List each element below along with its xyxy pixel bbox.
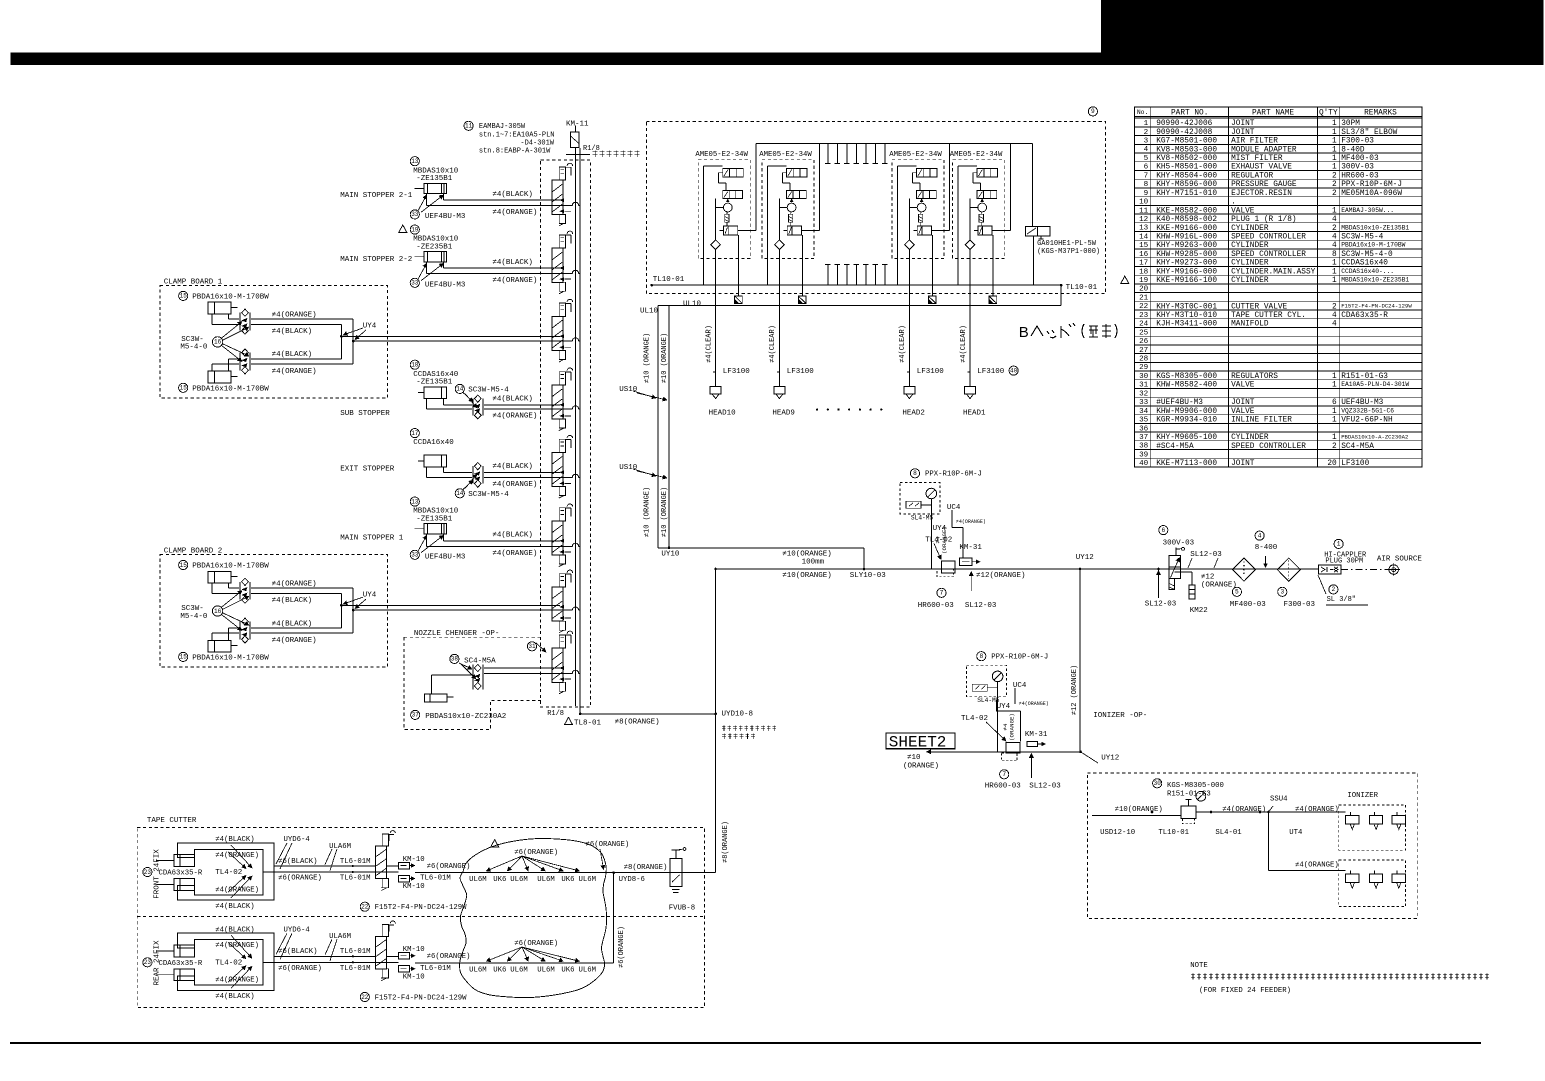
supply line P rail (576, 148, 581, 714)
svg-text:SC3W-: SC3W- (181, 605, 204, 613)
svg-text:F300-03: F300-03 (1341, 138, 1374, 146)
svg-text:23: 23 (144, 959, 152, 966)
wire sheet2 to UY12 drop (903, 750, 1082, 771)
svg-text:≠8(ORANGE): ≠8(ORANGE) (615, 718, 660, 726)
svg-text:34: 34 (1139, 408, 1149, 416)
svg-text:HR600-03: HR600-03 (1341, 173, 1379, 181)
svg-text:KM-31: KM-31 (959, 544, 982, 552)
svg-text:F15T2-F4-PN-DC24-129W: F15T2-F4-PN-DC24-129W (375, 904, 468, 912)
svg-text:UY4: UY4 (363, 592, 377, 600)
svg-text:MF400-03: MF400-03 (1341, 155, 1379, 163)
wire labels on main line (782, 554, 1094, 580)
manifold valve V6 (552, 504, 573, 567)
svg-text:MBDAS10x10-ZE135B1: MBDAS10x10-ZE135B1 (1341, 224, 1409, 231)
svg-text:TAPE CUTTER: TAPE CUTTER (147, 817, 197, 825)
svg-text:1: 1 (1332, 277, 1337, 285)
svg-text:F300-03: F300-03 (1284, 601, 1316, 609)
svg-text:≠4(ORANGE): ≠4(ORANGE) (956, 519, 986, 525)
svg-text:1: 1 (1144, 120, 1149, 128)
svg-text:KV8-M8502-000: KV8-M8502-000 (1156, 155, 1217, 163)
svg-text:K40-M8598-002: K40-M8598-002 (1156, 216, 1217, 224)
svg-text:2: 2 (1332, 173, 1337, 181)
svg-text:≠4(ORANGE): ≠4(ORANGE) (492, 550, 537, 558)
manifold valve V2 (552, 231, 573, 294)
tape cutter REAR assembly (23 CDA63x35-R / 22 F15T2) (143, 921, 471, 1003)
svg-text:10: 10 (1139, 199, 1149, 207)
rail UL10 (640, 285, 1061, 315)
cylinder EXIT STOPPER (17 CCDA16x40) (340, 429, 580, 499)
svg-text:KHW-M916L-000: KHW-M916L-000 (1156, 234, 1217, 242)
svg-text:REMARKS: REMARKS (1364, 109, 1397, 117)
svg-text:MODULE ADAPTER: MODULE ADAPTER (1231, 146, 1297, 154)
B head label (japanese) (1019, 323, 1117, 341)
main air supply line (714, 568, 1318, 571)
svg-text:30: 30 (1154, 780, 1162, 787)
svg-text:PPX-R10P-6M-J: PPX-R10P-6M-J (1341, 181, 1402, 189)
wire nozzle changer to valve V8 (484, 642, 580, 674)
tape cutter enclosure (137, 817, 704, 1008)
svg-text:HEAD2: HEAD2 (902, 409, 925, 417)
svg-text:PBDA16x10-M-170BW: PBDA16x10-M-170BW (192, 563, 269, 571)
wire clamp board 1 to valve V3 (341, 336, 580, 341)
regulator R151-01-G3 (30) (1092, 779, 1292, 824)
svg-text:IONIZER: IONIZER (1347, 792, 1378, 800)
wire SSU4 branch (1267, 806, 1345, 871)
svg-text:≠6(ORANGE): ≠6(ORANGE) (618, 926, 626, 968)
pressure gauge assembly 8 (lower) (961, 652, 1049, 752)
svg-text:PART NO.: PART NO. (1171, 109, 1208, 117)
svg-text:100mm: 100mm (802, 558, 825, 566)
svg-text:≠4(ORANGE): ≠4(ORANGE) (272, 311, 317, 319)
svg-text:UL6M: UL6M (510, 966, 528, 974)
svg-text:≠4(BLACK): ≠4(BLACK) (492, 532, 533, 540)
svg-text:1: 1 (1332, 207, 1337, 215)
svg-text:30PM: 30PM (1341, 120, 1360, 128)
svg-text:REGULATORS: REGULATORS (1231, 373, 1278, 381)
svg-text:≠6(BLACK): ≠6(BLACK) (278, 858, 317, 866)
warning triangle tape cutter (491, 840, 499, 847)
svg-text:31: 31 (528, 643, 536, 650)
joint SL 3/8 (2) (1318, 575, 1368, 605)
manifold valve V7 (552, 570, 573, 633)
svg-text:SC3W-M5-4-0: SC3W-M5-4-0 (1341, 251, 1393, 259)
svg-text:PART NAME: PART NAME (1252, 109, 1294, 117)
svg-text:UL10: UL10 (683, 301, 702, 309)
svg-text:≠10 (ORANGE): ≠10 (ORANGE) (661, 487, 669, 537)
svg-text:31: 31 (1139, 382, 1149, 390)
svg-text:16: 16 (1139, 251, 1149, 259)
svg-text:KKE-M9166-000: KKE-M9166-000 (1156, 225, 1217, 233)
svg-text:SL3/8" ELBOW: SL3/8" ELBOW (1341, 129, 1397, 137)
svg-text:TL10-01: TL10-01 (1158, 829, 1189, 837)
svg-text:KGS-M8305-000: KGS-M8305-000 (1156, 373, 1217, 381)
svg-text:#SC4-M5A: #SC4-M5A (1156, 443, 1194, 451)
svg-text:FVUB-8: FVUB-8 (669, 905, 695, 913)
manifold TL4-02 (lower) (1002, 743, 1020, 761)
svg-text:≠10(ORANGE): ≠10(ORANGE) (1115, 806, 1163, 814)
svg-text:8: 8 (979, 653, 983, 660)
svg-text:22: 22 (361, 904, 369, 911)
svg-text:≠10 (ORANGE): ≠10 (ORANGE) (643, 487, 651, 537)
svg-text:VALVE: VALVE (1231, 408, 1255, 416)
svg-text:SL4-01: SL4-01 (1215, 829, 1242, 837)
svg-text:≠6(ORANGE): ≠6(ORANGE) (514, 940, 558, 948)
svg-text:SPEED CONTROLLER: SPEED CONTROLLER (1231, 251, 1306, 259)
svg-text:-ZE135B1: -ZE135B1 (416, 379, 453, 387)
svg-text:6: 6 (1332, 399, 1337, 407)
svg-text:KHY-M3T10-010: KHY-M3T10-010 (1156, 312, 1217, 320)
svg-text:≠6(ORANGE): ≠6(ORANGE) (586, 841, 630, 849)
svg-text:19: 19 (1139, 277, 1149, 285)
svg-text:No.: No. (1137, 109, 1149, 116)
svg-text:LF3100: LF3100 (787, 368, 815, 376)
svg-text:HR600-03: HR600-03 (918, 602, 955, 610)
svg-text:-ZE235B1: -ZE235B1 (416, 244, 453, 252)
svg-text:F15T2-F4-PN-DC24-129W: F15T2-F4-PN-DC24-129W (375, 994, 468, 1002)
svg-text:EAMBAJ-305W: EAMBAJ-305W (479, 123, 526, 131)
svg-text:EA10A5-PLN-D4-301W: EA10A5-PLN-D4-301W (1341, 381, 1409, 388)
svg-text:TL6-01M: TL6-01M (340, 965, 371, 973)
svg-text:JOINT: JOINT (1231, 399, 1255, 407)
svg-text:CYLINDER: CYLINDER (1231, 225, 1269, 233)
speed controller SC4-M5A (38) (450, 654, 496, 689)
svg-text:12: 12 (1139, 216, 1149, 224)
svg-text:20: 20 (1327, 460, 1337, 468)
note text (1190, 962, 1489, 995)
svg-text:≠10: ≠10 (907, 754, 921, 762)
svg-text:SSU4: SSU4 (1270, 795, 1288, 803)
svg-text:≠6(BLACK): ≠6(BLACK) (278, 948, 317, 956)
svg-text:NOTE: NOTE (1190, 962, 1208, 970)
svg-text:28: 28 (1139, 356, 1149, 364)
coupler HI-CAPPLER PLUG 30PM (1) (1318, 539, 1367, 574)
rail TL10-01 (650, 276, 1097, 292)
svg-text:PBDA16x10-M-170BW: PBDA16x10-M-170BW (192, 293, 269, 301)
valve GA010HE1-PL-5W (KGS-M37P1-000) (1025, 143, 1100, 285)
svg-text:26: 26 (1139, 338, 1149, 346)
svg-text:EJECTOR.RESIN: EJECTOR.RESIN (1231, 190, 1292, 198)
svg-text:≠4(CLEAR): ≠4(CLEAR) (960, 325, 968, 363)
svg-text:HR600-03: HR600-03 (985, 782, 1022, 790)
svg-text:4: 4 (1258, 532, 1262, 539)
svg-text:≠4(BLACK): ≠4(BLACK) (215, 903, 254, 911)
svg-text:3: 3 (1144, 138, 1149, 146)
svg-text:≠4(ORANGE): ≠4(ORANGE) (272, 368, 317, 376)
svg-text:(ORANGE): (ORANGE) (1201, 581, 1237, 589)
svg-text:USD12-10: USD12-10 (1100, 829, 1135, 837)
svg-text:UEF4BU-M3: UEF4BU-M3 (425, 281, 466, 289)
svg-text:KJH-M3411-000: KJH-M3411-000 (1156, 321, 1217, 329)
node TL8-01 / R1/8 outlet (547, 710, 717, 727)
svg-text:Q'TY: Q'TY (1319, 109, 1338, 117)
ejector unit AME05-E2-34W #4 (950, 143, 1011, 305)
svg-text:37: 37 (412, 712, 420, 719)
svg-text:SL12-03: SL12-03 (965, 602, 997, 610)
svg-text:UEF4BU-M3: UEF4BU-M3 (425, 553, 466, 561)
air source symbol (1341, 556, 1422, 576)
svg-text:PPX-R10P-6M-J: PPX-R10P-6M-J (925, 471, 982, 479)
svg-text:JOINT: JOINT (1231, 129, 1255, 137)
svg-text:CYLINDER: CYLINDER (1231, 260, 1269, 268)
node UY10 (658, 547, 864, 570)
mist filter MF400-03 (5) (1230, 558, 1267, 609)
clamp board 1 assembly (160, 279, 388, 399)
joint KM-11 inline filter (566, 121, 600, 155)
svg-text:11: 11 (1139, 207, 1149, 215)
node UYD10-8 (722, 711, 754, 719)
svg-text:PBDA16x10-M-170BW: PBDA16x10-M-170BW (192, 654, 269, 662)
svg-text:1: 1 (1332, 120, 1337, 128)
regulator HR600-03 (7 lower) (985, 754, 1062, 791)
svg-text:CYLINDER.MAIN.ASSY: CYLINDER.MAIN.ASSY (1231, 268, 1316, 276)
svg-text:(KGS-M37P1-000): (KGS-M37P1-000) (1037, 248, 1100, 256)
ellipsis dots between heads (816, 409, 882, 411)
svg-text:2: 2 (1332, 225, 1337, 233)
svg-text:22: 22 (1139, 303, 1149, 311)
svg-text:≠4(ORANGE): ≠4(ORANGE) (215, 886, 259, 894)
clamp board 2 assembly (160, 548, 388, 668)
svg-text:KHW-M9906-000: KHW-M9906-000 (1156, 408, 1217, 416)
svg-text:VQZ332B-5G1-C6: VQZ332B-5G1-C6 (1341, 407, 1394, 414)
svg-text:SL4-M5: SL4-M5 (911, 514, 934, 521)
svg-text:KHW-M8582-400: KHW-M8582-400 (1156, 382, 1217, 390)
svg-text:≠8(ORANGE): ≠8(ORANGE) (624, 864, 668, 872)
svg-text:90990-42J006: 90990-42J006 (1156, 120, 1212, 128)
svg-text:CUTTER VALVE: CUTTER VALVE (1231, 303, 1287, 311)
svg-text:UYD6-4: UYD6-4 (284, 836, 311, 844)
warning triangle row19 (1121, 276, 1129, 283)
svg-text:UK6: UK6 (493, 966, 506, 974)
svg-text:2: 2 (1332, 586, 1336, 593)
svg-text:-ZE135B1: -ZE135B1 (416, 516, 453, 524)
svg-text:GA010HE1-PL-5W: GA010HE1-PL-5W (1037, 240, 1097, 248)
svg-text:33: 33 (1139, 399, 1149, 407)
svg-text:23: 23 (1139, 312, 1149, 320)
svg-text:KKE-M9166-100: KKE-M9166-100 (1156, 277, 1217, 285)
svg-text:UYD8-6: UYD8-6 (619, 876, 645, 884)
top rail stub connectors (825, 143, 887, 163)
svg-text:KKE-M7113-000: KKE-M7113-000 (1156, 460, 1217, 468)
svg-text:≠4(ORANGE): ≠4(ORANGE) (215, 977, 259, 985)
svg-text:LF3100: LF3100 (977, 368, 1005, 376)
svg-text:≠10(ORANGE): ≠10(ORANGE) (782, 572, 832, 580)
svg-text:KHY-M9605-100: KHY-M9605-100 (1156, 434, 1217, 442)
wire labels SL12-03 right (1145, 551, 1237, 609)
svg-text:KV8-M8503-000: KV8-M8503-000 (1156, 146, 1217, 154)
svg-text:PPX-R10P-6M-J: PPX-R10P-6M-J (991, 654, 1048, 662)
svg-text:UL10: UL10 (640, 308, 659, 316)
svg-text:(FOR FIXED 24 FEEDER): (FOR FIXED 24 FEEDER) (1199, 987, 1291, 995)
manifold valve V8 (552, 631, 573, 694)
svg-text:SC3W-M5-4: SC3W-M5-4 (1341, 234, 1383, 242)
svg-text:30: 30 (1139, 373, 1149, 381)
svg-text:MAIN STOPPER 1: MAIN STOPPER 1 (340, 535, 404, 543)
svg-text:KHY-M9273-000: KHY-M9273-000 (1156, 260, 1217, 268)
svg-text:KGS-M8305-000: KGS-M8305-000 (1167, 782, 1224, 790)
svg-text:UY4: UY4 (363, 323, 377, 331)
ionizer unit box 1 (1292, 792, 1406, 850)
svg-text:15: 15 (1139, 242, 1149, 250)
svg-text:.: . (1231, 199, 1236, 207)
tape cutter FRONT assembly (23 CDA63x35-R / 22 F15T2) (143, 831, 471, 913)
svg-text:UEF4BU-M3: UEF4BU-M3 (1341, 399, 1383, 407)
svg-text:CYLINDER: CYLINDER (1231, 242, 1269, 250)
svg-text:8-40D: 8-40D (1341, 146, 1365, 154)
module adapter 8-400 (4) (1255, 531, 1278, 568)
svg-text:MBDAS10x10: MBDAS10x10 (413, 508, 459, 516)
label REAR 24FIX (154, 940, 162, 986)
svg-text:40: 40 (1139, 460, 1149, 468)
svg-text:4: 4 (1144, 146, 1149, 154)
svg-text:TL6-01M: TL6-01M (340, 858, 371, 866)
parts table (1134, 107, 1421, 468)
svg-text:MBDAS10x10: MBDAS10x10 (413, 167, 459, 175)
svg-text:PLUG 30PM: PLUG 30PM (1325, 558, 1363, 566)
svg-text:SUB STOPPER: SUB STOPPER (340, 410, 390, 418)
svg-text:VFU2-66P-NH: VFU2-66P-NH (1341, 417, 1393, 425)
svg-text:≠4(BLACK): ≠4(BLACK) (272, 328, 313, 336)
wire label 10 orange 100mm (782, 551, 832, 567)
svg-text:2: 2 (1332, 190, 1337, 198)
svg-text:UL6M: UL6M (469, 966, 487, 974)
svg-text:UY10: UY10 (661, 550, 680, 558)
svg-text:≠4(ORANGE): ≠4(ORANGE) (1019, 701, 1049, 707)
svg-text:KKE-M8582-000: KKE-M8582-000 (1156, 207, 1217, 215)
svg-text:18: 18 (411, 362, 419, 369)
svg-text:15: 15 (180, 654, 188, 661)
svg-text:KM-11: KM-11 (566, 121, 589, 129)
svg-text:300V-03: 300V-03 (1341, 164, 1374, 172)
svg-text:#UEF4BU-M3: #UEF4BU-M3 (1156, 399, 1203, 407)
svg-text:M5-4-0: M5-4-0 (180, 613, 208, 621)
svg-text:KG7-M8501-000: KG7-M8501-000 (1156, 138, 1217, 146)
svg-text:27: 27 (1139, 347, 1148, 355)
head line HEAD2 with joint LF3100 (899, 306, 944, 418)
wire fan labels REAR (469, 940, 596, 975)
label FRONT 24FIX (154, 849, 162, 899)
svg-text:AME05-E2-34W: AME05-E2-34W (950, 151, 1003, 159)
pressure gauge assembly 8 (upper) (900, 469, 986, 569)
svg-text:SL12-03: SL12-03 (1190, 551, 1222, 559)
svg-text:SL12-03: SL12-03 (1145, 601, 1177, 609)
svg-text:33: 33 (411, 280, 419, 287)
svg-text:TL10-01: TL10-01 (653, 276, 685, 284)
svg-text:KHY-M8504-000: KHY-M8504-000 (1156, 173, 1217, 181)
cylinder SUB STOPPER (18 CCDAS16x40-ZE135B1) (340, 360, 580, 421)
svg-text:UYD6-4: UYD6-4 (284, 926, 311, 934)
head line HEAD9 with joint LF3100 (769, 306, 814, 418)
manifold valve V5 (552, 435, 573, 498)
svg-text:AIR FILTER: AIR FILTER (1231, 138, 1278, 146)
svg-text:1: 1 (1332, 260, 1337, 268)
svg-text:15: 15 (180, 385, 188, 392)
cylinder MAIN STOPPER 2-1 (13 MBDAS10x10-ZE135B1) (340, 157, 580, 221)
svg-text:LF3100: LF3100 (723, 368, 751, 376)
svg-text:2: 2 (1332, 443, 1337, 451)
svg-text:CDA63x35-R: CDA63x35-R (159, 960, 203, 968)
svg-text:SPEED CONTROLLER: SPEED CONTROLLER (1231, 443, 1306, 451)
svg-text:≠6(ORANGE): ≠6(ORANGE) (427, 953, 471, 961)
valve manifold dashed enclosure (541, 160, 591, 707)
svg-text:UK6: UK6 (561, 966, 574, 974)
svg-text:8-400: 8-400 (1255, 544, 1278, 552)
svg-text:6: 6 (1161, 527, 1165, 534)
svg-text:≠4(ORANGE): ≠4(ORANGE) (492, 481, 537, 489)
svg-text:SC4-M5A: SC4-M5A (1341, 443, 1374, 451)
regulator HR600-03 (7 upper) (918, 572, 997, 610)
svg-text:1: 1 (1332, 434, 1337, 442)
svg-text:TL6-01M: TL6-01M (420, 965, 451, 973)
svg-text:US10: US10 (619, 386, 638, 394)
svg-text:≠4(BLACK): ≠4(BLACK) (272, 620, 313, 628)
exhaust valve 300V-03 (6) (1159, 526, 1208, 616)
svg-text:≠4(ORANGE): ≠4(ORANGE) (492, 209, 537, 217)
node UY12 lower (1081, 752, 1120, 763)
svg-text:UC4: UC4 (947, 504, 961, 512)
svg-text:R151-01-G3: R151-01-G3 (1167, 791, 1211, 799)
inline filter FVUB-8 (619, 848, 695, 913)
svg-text:37: 37 (1139, 434, 1148, 442)
svg-text:4: 4 (1332, 321, 1337, 329)
svg-text:32: 32 (1139, 390, 1149, 398)
svg-text:6: 6 (1144, 164, 1149, 172)
svg-text:CCDA16x40: CCDA16x40 (413, 439, 454, 447)
svg-text:PBDA16x10-M-170BW: PBDA16x10-M-170BW (1341, 242, 1405, 249)
wire FRONT distribution (415, 871, 716, 874)
svg-text:≠4(ORANGE): ≠4(ORANGE) (1295, 861, 1339, 869)
wire clamp board 2 to valve V7 (341, 605, 580, 610)
svg-text:≠12(ORANGE): ≠12(ORANGE) (976, 572, 1026, 580)
svg-text:LF3100: LF3100 (1341, 460, 1369, 468)
head line HEAD10 with joint LF3100 (705, 306, 750, 418)
top title bar (11, 52, 1544, 65)
svg-text:-D4-301W: -D4-301W (520, 139, 554, 147)
svg-text:≠4(CLEAR): ≠4(CLEAR) (899, 325, 907, 363)
svg-text:TL4-02: TL4-02 (215, 869, 242, 877)
svg-text:IONIZER -OP-: IONIZER -OP- (1093, 712, 1147, 720)
svg-text:16: 16 (214, 339, 222, 346)
svg-text:UY12: UY12 (1076, 554, 1094, 562)
svg-text:1: 1 (1332, 268, 1337, 276)
svg-text:22: 22 (361, 994, 369, 1001)
svg-text:CCDAS16x40-...: CCDAS16x40-... (1341, 268, 1394, 275)
ejector unit AME05-E2-34W #2 (759, 143, 820, 305)
svg-text:HEAD10: HEAD10 (709, 409, 737, 417)
svg-text:KHY-M7151-010: KHY-M7151-010 (1156, 190, 1217, 198)
svg-text:M5-4-0: M5-4-0 (180, 344, 208, 352)
svg-text:≠10(ORANGE): ≠10(ORANGE) (782, 551, 832, 559)
svg-text:CCDAS16x40: CCDAS16x40 (1341, 260, 1388, 268)
svg-text:EXIT STOPPER: EXIT STOPPER (340, 466, 395, 474)
joint callout 40 (1009, 366, 1018, 375)
svg-text:≠4(ORANGE): ≠4(ORANGE) (492, 277, 537, 285)
svg-text:(ORANGE): (ORANGE) (1008, 713, 1015, 741)
svg-text:17: 17 (411, 430, 419, 437)
svg-text:TL6-01M: TL6-01M (420, 875, 451, 883)
svg-text:≠6(ORANGE): ≠6(ORANGE) (278, 965, 322, 973)
svg-text:ULA6M: ULA6M (329, 843, 351, 851)
svg-text:5: 5 (1235, 589, 1239, 596)
svg-text:33: 33 (411, 211, 419, 218)
svg-text:PRESSURE GAUGE: PRESSURE GAUGE (1231, 181, 1297, 189)
svg-text:MANIFOLD: MANIFOLD (1231, 321, 1269, 329)
svg-text:1: 1 (1332, 382, 1337, 390)
ejector unit AME05-E2-34W #3 (889, 143, 950, 305)
manifold valve V1 (552, 163, 573, 226)
svg-text:SHEET2: SHEET2 (889, 734, 947, 752)
svg-text:≠4(BLACK): ≠4(BLACK) (492, 396, 533, 404)
svg-text:40: 40 (1010, 367, 1018, 374)
